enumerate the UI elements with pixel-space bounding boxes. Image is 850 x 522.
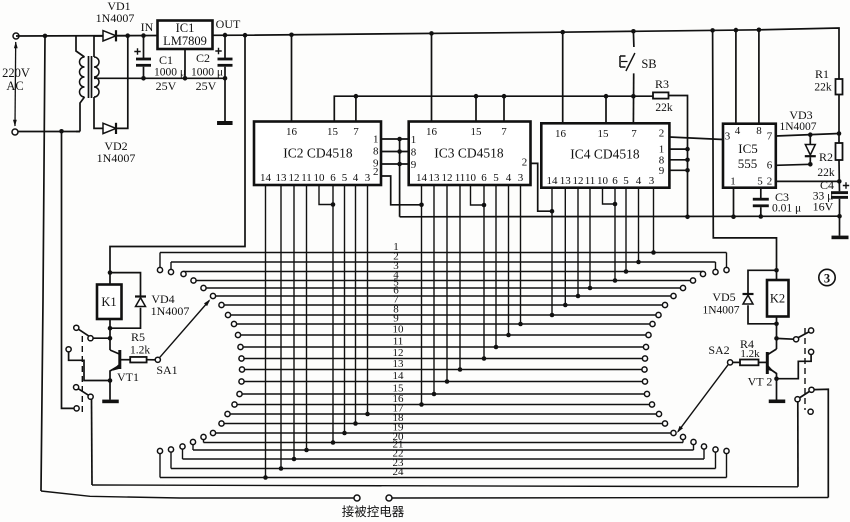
- svg-text:6: 6: [481, 172, 487, 184]
- wire 4 (matrix row 4): [194, 280, 694, 282]
- wire: C2 top lead: [224, 35, 226, 58]
- node: rail junction IC3 pin16: [429, 31, 434, 36]
- wire: IC3 pin5 to wire11: [495, 185, 497, 347]
- svg-text:16: 16: [286, 126, 298, 138]
- svg-text:SA1: SA1: [156, 363, 177, 377]
- node: left terminal circle wire 6: [210, 293, 215, 298]
- wire 23 right riser: [715, 452, 717, 468]
- junction dot IC3 pin10-6: [482, 203, 487, 208]
- wire: IC5 pin8 up to rail: [758, 30, 760, 124]
- wire: IC4 pin10 jog to pin6 line: [603, 188, 616, 204]
- dashed mechanical link left contacts: [81, 336, 83, 412]
- junction dot top rail / AC line1 drop: [43, 34, 48, 39]
- junction dot C2 on ground rail: [223, 76, 228, 81]
- junction dot IC4 pin6 to wire4: [613, 278, 618, 283]
- wire 22 (matrix row 22): [183, 458, 705, 460]
- node: left terminal circle wire 3: [181, 271, 186, 276]
- svg-text:VD5: VD5: [712, 290, 735, 304]
- terminal: output terminal right: [386, 495, 392, 501]
- wire: IC4 pin14 to wire8: [551, 188, 553, 315]
- relay contact I (middle right): [809, 349, 814, 354]
- svg-text:1N4007: 1N4007: [702, 305, 739, 317]
- node: left terminal circle wire 24: [157, 448, 162, 453]
- wire: contact B to K1/VT1 node: [93, 337, 110, 339]
- svg-text:2: 2: [522, 157, 528, 169]
- svg-text:R5: R5: [131, 330, 145, 344]
- junction dot C1 top on rail: [141, 33, 146, 38]
- node: rail junction IC4 pin16: [560, 30, 565, 35]
- junction dot IC3 pin14 to wire16: [419, 402, 424, 407]
- wire: IC3 pin12 to wire14: [446, 185, 448, 382]
- svg-text:14: 14: [260, 172, 272, 184]
- svg-text:1.2k: 1.2k: [740, 348, 760, 360]
- wire 24 right riser: [726, 454, 728, 478]
- wire 8 (matrix row 8): [228, 314, 659, 316]
- svg-text:IC1: IC1: [176, 21, 195, 35]
- wire: long interconnect from contact E to contact J: [92, 485, 798, 487]
- wire: IC2 pin11 to wire21: [306, 185, 308, 450]
- svg-text:9: 9: [411, 159, 417, 171]
- node: right terminal circle wire 14: [642, 379, 647, 384]
- wire: contact K to bottom rail right riser: [814, 389, 828, 497]
- node: rail junction IC5 pin8: [757, 28, 762, 33]
- svg-text:2: 2: [373, 166, 379, 178]
- svg-text:SB: SB: [641, 57, 656, 71]
- wire: rail down to K2 (long vertical + corner): [713, 30, 777, 280]
- terminal: 220V AC bottom input terminal: [12, 129, 18, 135]
- svg-text:10: 10: [393, 324, 405, 336]
- svg-text:25V: 25V: [156, 79, 177, 93]
- wire: AC line 1 vertical down left side: [41, 36, 45, 491]
- svg-text:15: 15: [471, 126, 483, 138]
- wire: secondary top to VD1 anode: [94, 36, 103, 57]
- wire: IC2-IC3 pins 1,8,9 tie stubs: [381, 138, 409, 140]
- node: left terminal circle wire 1: [157, 267, 162, 272]
- svg-text:1N4007: 1N4007: [96, 11, 135, 25]
- svg-text:10: 10: [314, 172, 326, 184]
- transformer T primary winding: [76, 36, 85, 57]
- capacitor C4 33u 16V: [831, 191, 848, 194]
- relay contact A (upper left, open): [74, 325, 79, 330]
- svg-text:11: 11: [301, 172, 312, 184]
- wire 2 right riser: [715, 262, 717, 269]
- wire: R5 to SA1 pivot: [147, 359, 156, 361]
- wire: bottom output rail left segment: [41, 491, 354, 498]
- wire 6 (matrix row 6): [213, 295, 674, 297]
- relay contact B: [88, 336, 93, 341]
- junction dot IC3 pin13 to wire15: [432, 392, 437, 397]
- junction dot C3 gnd: [759, 214, 764, 219]
- relay contact G (right): [794, 337, 799, 342]
- wire: IC3 pin14 to wire16: [421, 185, 423, 405]
- terminal: 220V AC top input terminal: [13, 33, 19, 39]
- wire: IC2 pin6 to wire20: [332, 185, 334, 443]
- junction dot IC4 pin3 to wire1: [651, 250, 656, 255]
- svg-text:25V: 25V: [196, 79, 217, 93]
- svg-text:7: 7: [353, 126, 359, 138]
- svg-text:3: 3: [725, 131, 731, 143]
- wire: VD3 top stub: [809, 135, 811, 145]
- svg-text:5: 5: [757, 176, 763, 188]
- wire: R2 bottom to pin2 junction: [838, 160, 840, 181]
- junction dot IC2 pin10-6: [331, 202, 336, 207]
- rotary switch SA1 pivot: [155, 357, 160, 362]
- svg-text:1: 1: [730, 176, 736, 188]
- junction dot IC3 pin4 to wire10: [506, 333, 511, 338]
- node: right terminal circle wire 16: [649, 402, 654, 407]
- wire 14 (matrix row 14): [242, 381, 646, 383]
- relay coil K1: [97, 285, 122, 320]
- svg-text:IC3 CD4518: IC3 CD4518: [434, 146, 504, 161]
- counter IC2 CD4518 box: [254, 122, 381, 186]
- svg-text:555: 555: [738, 156, 758, 171]
- wire: IC2 pin3 to wire17: [367, 185, 369, 414]
- wire: reset/clock rail linking pins 15 and 7 of IC2 IC3 IC4: [334, 96, 653, 121]
- wire: IC4 pin2 to IC5 pin3: [669, 137, 723, 140]
- rotary switch SA2 pivot: [728, 360, 733, 365]
- svg-text:13: 13: [393, 358, 405, 370]
- relay contact C (middle left): [66, 347, 71, 352]
- svg-text:14: 14: [547, 175, 559, 187]
- junction dot VT1 emitter / contact C: [108, 378, 113, 383]
- wire: SB top lead: [632, 31, 635, 47]
- node: left terminal circle wire 9: [231, 321, 236, 326]
- wire: IC3 pin15 stub: [475, 96, 477, 121]
- node: right terminal circle wire 24: [724, 448, 729, 453]
- wire 15 (matrix row 15): [240, 393, 648, 395]
- wire 9 (matrix row 9): [234, 323, 653, 325]
- svg-text:6: 6: [767, 160, 773, 172]
- wire 13 (matrix row 13): [242, 369, 645, 371]
- svg-text:3: 3: [518, 172, 524, 184]
- node: right terminal circle wire 20: [680, 434, 685, 439]
- wire: ground rail of logic section: [400, 215, 840, 218]
- wire 24 left riser: [159, 454, 161, 478]
- wire: IC5 pin2 line to R2 bottom junction: [776, 180, 840, 182]
- double-headed arrow between AC terminals: [14, 42, 17, 126]
- wire: C1 bottom lead to ground rail: [143, 67, 145, 79]
- diode VD3 1N4007: [805, 145, 815, 156]
- wire: bottom output rail right segment: [392, 497, 828, 500]
- node: left terminal circle wire 16: [232, 402, 237, 407]
- svg-text:6: 6: [612, 175, 618, 187]
- svg-text:11: 11: [455, 172, 466, 184]
- svg-text:24: 24: [393, 466, 405, 478]
- wire 17 (matrix row 17): [228, 413, 660, 415]
- resistor R2 22k: [836, 143, 843, 160]
- node: right terminal circle wire 13: [642, 367, 647, 372]
- counter IC4 CD4518 box: [541, 123, 669, 187]
- svg-text:3: 3: [649, 175, 655, 187]
- node: rail junction SB: [631, 29, 636, 34]
- svg-text:15: 15: [598, 128, 610, 140]
- node: rail junction K2 feed: [710, 28, 715, 33]
- svg-text:16: 16: [426, 126, 438, 138]
- capacitor C1 1000u 25V: [136, 58, 151, 61]
- resistor R4 1.2k: [740, 360, 759, 366]
- ground symbol below VT2: [769, 400, 786, 404]
- wire: IC2 pin14 to wire24: [265, 185, 267, 478]
- wire: IC4 pin13 to wire7: [564, 188, 566, 305]
- node: left terminal circle wire 2: [168, 269, 173, 274]
- node: left terminal circle wire 21: [190, 439, 195, 444]
- svg-text:R2: R2: [819, 150, 833, 164]
- resistor R3 22k: [653, 92, 669, 98]
- wire: IC3 pin3 to wire9: [520, 185, 522, 324]
- contact arm D-E: [78, 389, 88, 395]
- wire: IC2 pin13 to wire23: [280, 185, 282, 469]
- svg-text:13: 13: [560, 175, 572, 187]
- node: right terminal circle wire 15: [644, 391, 649, 396]
- node: left terminal circle wire 12: [239, 356, 244, 361]
- svg-text:8: 8: [756, 125, 762, 137]
- svg-text:1: 1: [411, 134, 417, 146]
- transistor VT2 base bar: [766, 352, 769, 374]
- svg-text:LM7809: LM7809: [163, 34, 207, 48]
- node: +9V rail junction IC2 pin16: [289, 32, 294, 37]
- wire: IC3 pin4 to wire10: [508, 185, 510, 335]
- wire 20 left riser: [203, 440, 205, 443]
- node: left terminal circle wire 10: [235, 332, 240, 337]
- wire: VD5 top branch: [748, 270, 777, 294]
- node: left terminal circle wire 19: [210, 430, 215, 435]
- wire: contact C stepped path to VT1 emitter: [69, 352, 110, 381]
- node: right terminal circle wire 1: [724, 267, 729, 272]
- wire: SB bottom lead to reset rail and IC4 pin7: [632, 73, 634, 123]
- wire: IC2 pin12 to wire22: [293, 185, 295, 459]
- capacitor C3 0.01u: [753, 198, 769, 201]
- junction dot IC4 pin14 to wire8: [550, 313, 555, 318]
- wire 16 (matrix row 16): [235, 404, 653, 406]
- svg-text:6: 6: [330, 172, 336, 184]
- svg-text:4: 4: [353, 172, 359, 184]
- svg-text:16: 16: [555, 128, 567, 140]
- wire: IC4 pin5 to wire3: [625, 188, 627, 272]
- relay coil K2: [767, 280, 789, 317]
- transformer T secondary winding: [94, 57, 99, 97]
- wire: K1 bottom to VT1 collector: [109, 319, 111, 350]
- node: right terminal circle wire 3: [700, 271, 705, 276]
- relay contact F: [74, 406, 79, 411]
- diode VD4 1N4007: [135, 295, 146, 297]
- junction dot rectifier output: [125, 33, 130, 38]
- wire: +V top rail from AC terminal to R1 corner: [16, 28, 839, 79]
- node: right terminal circle wire 8: [656, 312, 661, 317]
- junction dot IC2 pin3 to wire17: [365, 412, 370, 417]
- wire: IC4 pin15 stub: [605, 96, 607, 123]
- svg-text:VT 2: VT 2: [748, 375, 773, 389]
- node: left terminal circle wire 17: [225, 411, 230, 416]
- wire: VD4 top branch: [110, 273, 141, 297]
- svg-text:10: 10: [597, 175, 609, 187]
- contact arm A-B: [79, 329, 89, 336]
- junction dot IC2 pin14 to wire24: [263, 475, 268, 480]
- junction dot K1 feed on rail: [243, 33, 248, 38]
- junction dot VD3 bottom on pin6 line: [808, 162, 813, 167]
- wire: K2 bottom to VT2 collector: [776, 317, 778, 350]
- svg-text:C1: C1: [159, 53, 173, 67]
- svg-text:1: 1: [373, 134, 379, 146]
- svg-text:12: 12: [442, 172, 453, 184]
- wire: contact E down to long interconnect wire: [91, 399, 94, 485]
- svg-text:IC2 CD4518: IC2 CD4518: [283, 146, 353, 161]
- svg-text:1000 μ: 1000 μ: [191, 67, 223, 79]
- push button SB: [626, 53, 635, 71]
- resistor R1 22k: [836, 79, 843, 95]
- wire: IC3 pin13 to wire15: [433, 185, 435, 394]
- wire: VD2 cathode up to rail junction: [117, 36, 128, 129]
- junction dot IC3 pin3 to wire9: [518, 322, 523, 327]
- svg-text:接被控电器: 接被控电器: [342, 504, 405, 519]
- junction dot bottom AC rail / AC line2 drop: [59, 129, 64, 134]
- node: left terminal circle wire 22: [180, 444, 185, 449]
- node: right terminal circle wire 12: [642, 356, 647, 361]
- wire: C2 bottom lead through ground rail to ground: [224, 67, 226, 121]
- wire 20 (matrix row 20): [204, 442, 684, 444]
- svg-text:14: 14: [416, 172, 428, 184]
- wire 3 (matrix row 3): [184, 271, 704, 273]
- transistor VT1 base bar: [118, 350, 121, 369]
- wire: IC4 pins 1,8,9 stubs to R3 vertical: [669, 148, 687, 150]
- junction dot IC2 pin11 to wire21: [304, 448, 309, 453]
- junction dot VD5 bottom on K2 lead: [774, 322, 779, 327]
- wire: IC4 pin4 to wire2: [638, 188, 640, 262]
- wire 3 left riser: [183, 270, 185, 272]
- junction dot IC3 pin6 to wire12: [482, 356, 487, 361]
- wire: IC4 pin12 to wire6: [577, 188, 579, 296]
- node: right terminal circle wire 17: [656, 411, 661, 416]
- svg-text:1N4007: 1N4007: [97, 151, 136, 165]
- svg-text:14: 14: [393, 370, 405, 382]
- wire: IC1 ground pin to ground rail: [184, 49, 186, 78]
- node: right terminal circle wire 23: [713, 447, 718, 452]
- node: right terminal circle wire 10: [646, 332, 651, 337]
- wire: IC2 pin5 to wire19: [344, 185, 346, 433]
- wire: C4 bottom to ground bar: [839, 199, 841, 236]
- svg-text:10: 10: [465, 172, 477, 184]
- junction dot ground rail at C4 leg: [837, 214, 842, 219]
- junction dot IC4 pin11 to wire5: [588, 286, 593, 291]
- wire: C3 bottom to ground rail: [760, 207, 762, 216]
- svg-text:1000 μ: 1000 μ: [154, 67, 186, 79]
- svg-text:1N4007: 1N4007: [779, 121, 816, 133]
- junction dot IC2 pin5 to wire19: [342, 431, 347, 436]
- wire: IC5 pin7 to R1/R2 junction: [776, 134, 839, 137]
- wire 23 (matrix row 23): [171, 468, 716, 470]
- wire: IC4 pin6 to wire4: [614, 188, 616, 281]
- svg-text:11: 11: [393, 336, 404, 348]
- wire 12 (matrix row 12): [242, 358, 646, 360]
- relay contact K: [809, 387, 814, 392]
- svg-text:C2: C2: [196, 51, 210, 65]
- wire 10 (matrix row 10): [238, 334, 649, 336]
- ground symbol below C2: [217, 121, 233, 125]
- diode VD5 1N4007: [743, 293, 754, 295]
- junction dot IC2 pin4 to wire18: [353, 421, 358, 426]
- junction dot VD3 top on pin7 line: [808, 132, 813, 137]
- wire 24 (matrix row 24): [160, 477, 727, 479]
- junction dots 1-8-9 tie: [397, 137, 402, 142]
- wire: R1 bottom to junction: [838, 95, 840, 134]
- node: left terminal circle wire 14: [239, 379, 244, 384]
- svg-text:3: 3: [365, 172, 371, 184]
- ground symbol below C4: [832, 236, 849, 240]
- node: left terminal circle wire 20: [201, 434, 206, 439]
- wire 22 left riser: [182, 449, 184, 459]
- svg-text:VD3: VD3: [789, 108, 812, 122]
- svg-text:2: 2: [659, 128, 665, 140]
- junction dot IC4 pin12 to wire6: [576, 294, 581, 299]
- wire: junction to R2 top: [838, 134, 840, 144]
- junction dot R3 vertical gnd: [685, 215, 690, 220]
- wire: IC5 pin6 line: [776, 164, 811, 165]
- node: left terminal circle wire 13: [239, 367, 244, 372]
- wire: contact I stepped path to VT2 emitter: [777, 355, 812, 379]
- VT2 collector: [768, 349, 777, 355]
- svg-text:IC4 CD4518: IC4 CD4518: [570, 147, 640, 162]
- svg-text:9: 9: [659, 165, 665, 177]
- wire: IC4 pin3 to wire1: [653, 188, 655, 253]
- junction dot C2 top on rail: [223, 33, 228, 38]
- wire 20 right riser: [682, 440, 684, 443]
- wire: IC5 pin1 down to ground rail: [733, 188, 735, 217]
- wire 1 left riser: [159, 253, 161, 268]
- svg-text:7: 7: [767, 131, 773, 143]
- svg-text:IN: IN: [141, 20, 154, 34]
- diode VD1 1N4007: [103, 31, 116, 41]
- VT1 collector: [110, 350, 119, 354]
- wire 1 (matrix row 1): [160, 252, 727, 254]
- capacitor C2 1000u 25V: [218, 58, 233, 61]
- node: left terminal circle wire 11: [238, 344, 243, 349]
- wire: IC4 pin11 to wire5: [589, 188, 591, 288]
- diode VD2 1N4007: [103, 123, 116, 133]
- wire 21 right riser: [693, 445, 695, 450]
- wire: secondary bottom to VD2 anode: [94, 97, 103, 128]
- node: left terminal circle wire 7: [219, 302, 224, 307]
- junction dots IC4 1-8-9 tie: [685, 147, 690, 152]
- junction dot VT2 emitter / contact I: [774, 376, 779, 381]
- svg-text:IC5: IC5: [738, 141, 758, 156]
- wire 18 (matrix row 18): [222, 423, 666, 425]
- wire: VD4 bottom to K1 bottom node: [110, 308, 141, 329]
- node: right terminal circle wire 2: [713, 269, 718, 274]
- svg-text:16V: 16V: [813, 200, 834, 214]
- terminal: output terminal left: [354, 495, 360, 501]
- junction dot VD4 branch: [108, 270, 113, 275]
- wire: IC3 pin10 jog to pin6 line: [471, 185, 485, 205]
- svg-text:4: 4: [506, 172, 512, 184]
- wire: IC3 pin2 carry jog to IC4 pin14 line: [531, 163, 553, 211]
- junction dot contact-G tap on K2 lead: [774, 336, 779, 341]
- wire: C1 top lead: [143, 36, 145, 58]
- wire 21 (matrix row 21): [193, 449, 694, 451]
- svg-text:K2: K2: [770, 292, 785, 306]
- wire: rail down-left-down to relay K1 top: [110, 35, 245, 284]
- wire: junction to C4 top: [838, 181, 840, 191]
- junction dot IC4 pin10-6: [613, 202, 618, 207]
- node: right terminal circle wire 5: [680, 285, 685, 290]
- VT2 base wire from R4: [759, 361, 768, 363]
- svg-text:SA2: SA2: [708, 343, 729, 357]
- junction dot R1/R2/pin7: [837, 131, 842, 136]
- junction dot IC3 pin5 to wire11: [494, 345, 499, 350]
- wire: IC2 pin7 stub: [355, 96, 357, 121]
- SA1 wiper arm with arrow: [159, 301, 209, 358]
- junction dot IC3 pin12 to wire14: [445, 379, 450, 384]
- relay contact L (open): [808, 409, 813, 414]
- node: right terminal circle wire 21: [691, 439, 696, 444]
